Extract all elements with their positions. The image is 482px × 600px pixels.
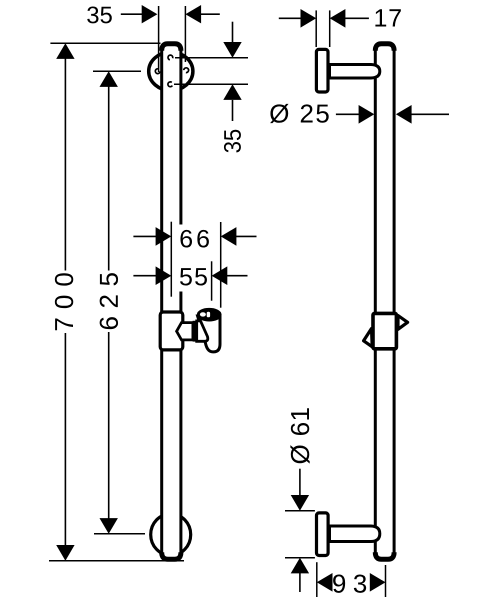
dimension Ø61: upper leader and arrow	[299, 469, 301, 497]
dimension 35 top: right leader and arrow	[197, 13, 220, 15]
dimension Ø61: top extension line	[285, 510, 315, 512]
dimension Ø61: lower leader and arrow	[291, 558, 309, 574]
dimension 700: line with arrows	[56, 43, 74, 59]
dimension Ø61: label (rotated)	[290, 408, 309, 463]
dimension 35 top: extension lines	[158, 6, 160, 72]
dimension 55: label	[180, 268, 207, 285]
dimension 35 top: label	[87, 6, 112, 23]
dimension Ø25: leader and arrows	[336, 113, 360, 115]
dimension 35 right (vertical): extension lines	[175, 57, 248, 59]
screw slot arc left	[155, 69, 160, 74]
slide bar (side view)	[375, 43, 394, 560]
dimension Ø61: bottom extension line	[285, 557, 315, 559]
dimension 625: label (rotated)	[100, 273, 118, 329]
screw slot arc top	[168, 55, 173, 60]
dimension 93: extension lines	[316, 562, 318, 597]
dimension 35 right: upper leader and arrow	[232, 22, 234, 46]
dimension 66: extension line right (cup edge)	[220, 222, 222, 308]
top arm (side view)	[330, 65, 380, 79]
dimension 700: label (rotated)	[55, 273, 73, 330]
dimension 55: extension line right	[211, 261, 213, 300]
dimension 17: label	[375, 9, 400, 26]
dimension Ø25: label	[270, 104, 329, 123]
bottom arm (side view)	[330, 526, 380, 542]
top wall flange (circle)	[149, 52, 193, 90]
top wall plate (side view)	[316, 49, 328, 92]
dimension 66: label	[180, 230, 208, 248]
dimension 55: left leader and arrow	[133, 275, 160, 277]
dimension 66: left leader and arrow	[133, 235, 160, 237]
slider body (front view)	[160, 312, 183, 350]
dimension 17: extension lines	[315, 10, 317, 47]
dimension 17: left leader and arrow	[279, 17, 305, 19]
dimension 625: top extension line	[93, 70, 141, 72]
white mask for 66/55 labels over bar right edge	[177, 225, 215, 292]
clamp link (front view)	[193, 321, 197, 342]
screw slot arc right	[184, 68, 189, 73]
dimension 625: bottom extension line	[94, 533, 145, 535]
screw slot arc bottom	[168, 82, 172, 87]
dimension 35 top: left leader and arrow	[121, 13, 146, 15]
dimension 93: right arrow	[370, 573, 386, 592]
dimension 66: right leader and arrow	[221, 227, 237, 246]
dimension 625: line with arrows	[100, 71, 118, 87]
dimension 35 right: label (rotated)	[224, 130, 241, 153]
slider (side view)	[364, 313, 408, 348]
bottom wall plate (side view)	[317, 513, 329, 556]
hose holder cup (front view)	[198, 309, 221, 351]
dimension 93: label	[333, 574, 366, 592]
dimension 35 right: lower leader and arrow	[223, 84, 241, 100]
dimension 55: right leader and arrow	[212, 266, 228, 285]
dimension 17: right leader and arrow	[330, 9, 346, 28]
dimension 93: left arrow	[317, 573, 333, 592]
dimension 66: extension line left (bar centerline)	[170, 222, 172, 297]
dimension 700: bottom extension line	[49, 560, 184, 562]
dimension 700: top extension line	[50, 42, 160, 44]
slide bar (front view)	[162, 43, 181, 560]
clamp beak (front view)	[197, 321, 208, 341]
clamp knob (front view)	[177, 323, 193, 340]
bottom wall flange (circle)	[151, 514, 191, 556]
